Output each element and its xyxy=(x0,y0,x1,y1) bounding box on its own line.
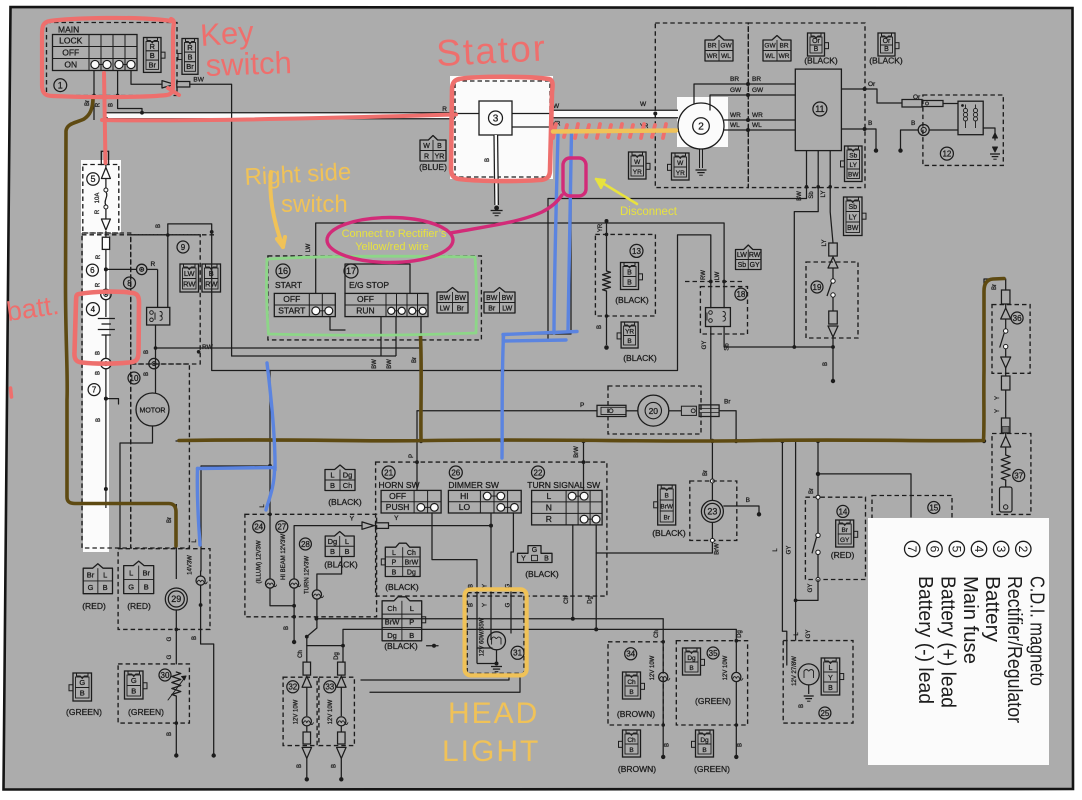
svg-text:N: N xyxy=(546,502,552,512)
svg-text:(RED): (RED) xyxy=(831,550,855,560)
svg-text:B: B xyxy=(746,497,750,504)
connector Br GY 14 xyxy=(836,520,854,547)
svg-text:4: 4 xyxy=(91,305,96,314)
magneto circle 2 xyxy=(678,103,724,149)
lamp 34 bulb xyxy=(659,672,668,681)
wire L into box xyxy=(269,514,271,579)
magneto BR GW wires xyxy=(694,84,795,104)
wire pair to headlight area xyxy=(361,673,509,680)
svg-text:Battery (-) lead: Battery (-) lead xyxy=(914,576,936,704)
svg-text:LY: LY xyxy=(822,240,828,247)
svg-text:WL: WL xyxy=(730,122,740,129)
svg-text:G: G xyxy=(167,654,173,659)
svg-text:15: 15 xyxy=(929,503,938,512)
svg-text:BR: BR xyxy=(779,43,788,50)
svg-text:L: L xyxy=(392,550,396,557)
svg-text:B: B xyxy=(665,743,671,747)
svg-text:DIMMER SW: DIMMER SW xyxy=(448,480,499,490)
legend item 5 Main fuse xyxy=(949,541,964,556)
svg-text:YR: YR xyxy=(625,328,634,335)
wire R from key switch down to fuse xyxy=(104,71,106,152)
svg-text:L: L xyxy=(546,491,551,501)
svg-text:Y: Y xyxy=(828,675,833,682)
svg-text:GY: GY xyxy=(787,546,793,555)
connector BW BW LW Br xyxy=(437,288,468,314)
CDI Or wire right xyxy=(841,88,877,90)
svg-text:Y: Y xyxy=(483,603,489,607)
dimmer knob dashed box 30 xyxy=(118,664,189,723)
circled 31 xyxy=(511,646,524,659)
svg-text:14V3W: 14V3W xyxy=(188,555,194,575)
svg-text:GY: GY xyxy=(750,262,760,269)
legend item 2 C.D.I. magneto xyxy=(1016,541,1031,556)
circled 17 xyxy=(344,264,358,278)
connector GW BR WL WR xyxy=(763,36,791,62)
svg-text:22: 22 xyxy=(534,468,543,477)
svg-text:R: R xyxy=(96,282,102,287)
svg-text:B: B xyxy=(665,493,669,500)
brown hand-drawn earth bus trace xyxy=(179,279,1004,442)
lamp chain 36 fuse xyxy=(1001,290,1010,304)
connector L Ch P BrW B Dg xyxy=(385,543,420,576)
circled 30 xyxy=(159,669,171,681)
red tail mark xyxy=(168,88,179,95)
svg-text:HEAD: HEAD xyxy=(448,697,539,730)
svg-text:(BLACK): (BLACK) xyxy=(385,582,419,592)
svg-text:Sb: Sb xyxy=(848,204,857,211)
lamp 33 chain xyxy=(338,662,346,675)
svg-text:HORN SW: HORN SW xyxy=(379,480,420,490)
tail lamp wires in xyxy=(782,631,786,665)
flasher lamp 32 dashed box xyxy=(283,677,317,745)
svg-text:(BROWN): (BROWN) xyxy=(617,709,655,719)
svg-text:(BROWN): (BROWN) xyxy=(618,764,656,774)
svg-text:(GREEN): (GREEN) xyxy=(695,696,731,706)
svg-text:12V 10W: 12V 10W xyxy=(294,699,300,724)
circled 25 xyxy=(819,707,831,719)
battery dashed box xyxy=(82,233,131,548)
circled 6 xyxy=(86,264,98,276)
svg-text:GY: GY xyxy=(808,584,814,593)
circled 5 xyxy=(87,173,99,185)
svg-text:(RED): (RED) xyxy=(127,601,151,611)
legend item 7 Battery (-) lead xyxy=(905,541,920,556)
svg-text:BW: BW xyxy=(439,295,451,302)
svg-text:Dg: Dg xyxy=(687,655,696,662)
svg-text:R: R xyxy=(96,102,102,107)
wire BW from CDI down left xyxy=(503,187,807,341)
horn switch table xyxy=(381,490,441,513)
wire W white highlighted to stator xyxy=(104,112,455,114)
svg-text:Battery: Battery xyxy=(981,576,1003,642)
svg-text:10A: 10A xyxy=(95,193,101,204)
lamp 20 fuse left xyxy=(597,405,626,416)
circled 37 xyxy=(1013,470,1025,482)
svg-text:switch: switch xyxy=(205,45,292,83)
svg-text:R: R xyxy=(95,209,101,214)
grommet on battery wire xyxy=(101,289,111,299)
connector R B Br at key switch xyxy=(144,38,162,73)
horn B wire down xyxy=(432,513,492,648)
circled 9 xyxy=(177,241,189,253)
svg-text:MAIN: MAIN xyxy=(58,25,79,35)
svg-text:OFF: OFF xyxy=(283,294,300,304)
svg-text:B: B xyxy=(103,583,108,592)
svg-text:3: 3 xyxy=(994,546,1008,553)
wire Br top right xyxy=(984,279,1006,441)
svg-text:37: 37 xyxy=(1014,471,1023,480)
key switch 1 dashed box xyxy=(47,23,178,96)
wire Dg to 33 xyxy=(342,629,344,662)
connector B RW xyxy=(202,264,221,292)
svg-text:LY: LY xyxy=(849,215,857,222)
svg-text:B: B xyxy=(109,103,115,107)
wire YR junction dot xyxy=(569,129,573,133)
circled 7 xyxy=(88,384,100,396)
svg-text:10: 10 xyxy=(130,374,139,383)
svg-text:GW: GW xyxy=(764,43,776,50)
red hand-drawn R wire trace vertical xyxy=(104,73,106,163)
connector Br L G B red xyxy=(83,564,112,594)
svg-text:Dg: Dg xyxy=(328,537,338,546)
svg-text:R: R xyxy=(424,153,429,160)
connector B BrW Br xyxy=(658,485,676,525)
grommet 8 on R wire xyxy=(137,264,147,274)
14V3W bulb xyxy=(196,576,205,585)
svg-text:P: P xyxy=(580,402,584,409)
start to e/g link wire xyxy=(330,317,345,330)
svg-text:Br: Br xyxy=(87,570,95,579)
svg-text:BrW: BrW xyxy=(660,504,674,511)
svg-text:BrW: BrW xyxy=(405,560,419,567)
wire Br from key switch down xyxy=(93,71,95,120)
headlight bulb xyxy=(488,632,506,650)
svg-text:Dg: Dg xyxy=(387,631,397,640)
dimmer Y wire down xyxy=(490,513,492,640)
brake switch 14 wire xyxy=(817,441,819,497)
svg-text:Br: Br xyxy=(703,470,709,476)
svg-text:30: 30 xyxy=(161,671,170,680)
lamp 35 bulb xyxy=(732,672,741,681)
svg-text:TURN 12V3W: TURN 12V3W xyxy=(305,556,311,594)
circled 19 xyxy=(811,281,823,293)
stator W wire right xyxy=(512,113,550,115)
meter lamp dashed box 24 27 28 xyxy=(245,514,377,617)
circled 21 xyxy=(382,466,395,479)
ignition fuse xyxy=(902,100,922,108)
dashed box 12 xyxy=(923,95,1003,165)
svg-text:6: 6 xyxy=(927,546,941,553)
svg-text:HI: HI xyxy=(460,491,469,501)
svg-text:B: B xyxy=(150,51,155,60)
svg-text:Br: Br xyxy=(149,60,157,69)
wire YR down from disconnect xyxy=(503,131,571,334)
svg-text:L: L xyxy=(330,470,334,479)
svg-text:P: P xyxy=(392,560,397,567)
relay top wire xyxy=(157,269,159,307)
svg-text:B: B xyxy=(689,665,693,672)
svg-text:14: 14 xyxy=(838,507,847,516)
svg-text:L: L xyxy=(129,568,133,577)
svg-text:B: B xyxy=(884,46,889,53)
svg-text:B: B xyxy=(828,685,833,692)
svg-text:Br: Br xyxy=(809,488,815,494)
svg-text:LOCK: LOCK xyxy=(59,35,82,45)
horn P wire up xyxy=(416,411,418,491)
svg-text:G: G xyxy=(505,602,511,607)
svg-text:YR: YR xyxy=(598,223,604,232)
svg-text:29: 29 xyxy=(171,594,181,604)
svg-text:(BLACK): (BLACK) xyxy=(384,641,418,651)
svg-text:BW: BW xyxy=(193,77,204,84)
wire Br down to meter xyxy=(175,504,177,549)
svg-text:12V 10W: 12V 10W xyxy=(650,655,656,680)
svg-text:33: 33 xyxy=(325,683,334,692)
headlight ground xyxy=(496,650,498,664)
svg-text:BrW: BrW xyxy=(385,618,401,627)
svg-text:LW: LW xyxy=(715,271,721,280)
svg-text:Br: Br xyxy=(457,305,465,312)
tail lamp ground xyxy=(808,685,810,694)
svg-text:B: B xyxy=(144,350,150,354)
svg-text:Ch: Ch xyxy=(627,679,636,686)
chain 36 fuse 3 xyxy=(1001,418,1010,433)
svg-text:(BLACK): (BLACK) xyxy=(615,295,649,305)
svg-text:Connect to Rectifier’s: Connect to Rectifier’s xyxy=(342,228,447,240)
svg-text:B: B xyxy=(209,269,214,278)
svg-text:Y: Y xyxy=(995,396,1001,400)
fuse terminal bottom triangle xyxy=(101,219,110,230)
battery negative wire down xyxy=(105,369,107,508)
white band behind W and YR wires stator to magneto xyxy=(550,110,678,118)
handlebar switch dashed box xyxy=(376,462,607,596)
svg-text:switch: switch xyxy=(281,191,348,218)
pink connect oval xyxy=(327,218,453,263)
wire from e/g stop to lamp 20 area xyxy=(417,410,597,412)
svg-text:Dg: Dg xyxy=(737,630,743,638)
dimmer G wire down xyxy=(511,513,513,633)
wire to dimmer switch xyxy=(502,334,504,458)
connector Sb LY BW xyxy=(845,146,863,182)
magneto 2 dashed box xyxy=(655,23,748,188)
flasher switch xyxy=(831,279,835,283)
svg-text:E/G STOP: E/G STOP xyxy=(349,280,389,290)
grommet on battery negative xyxy=(101,358,111,368)
svg-text:Br: Br xyxy=(841,527,848,534)
svg-text:L: L xyxy=(103,570,107,579)
svg-text:2: 2 xyxy=(698,122,704,133)
red tick marks on YR wire xyxy=(553,124,556,138)
chain 36 fuse 2 xyxy=(1001,376,1010,390)
magneto ground xyxy=(699,149,701,168)
legend box xyxy=(868,518,1049,765)
CDI dashed box xyxy=(748,23,865,188)
svg-text:4: 4 xyxy=(972,546,986,553)
circled 34 xyxy=(625,648,637,660)
yellow arrow to disconnect xyxy=(596,179,637,204)
svg-text:ON: ON xyxy=(64,59,77,69)
red mark at left edge xyxy=(11,388,12,397)
lamp 20 circle xyxy=(638,395,669,426)
connector BW BW Br LW xyxy=(484,288,515,314)
svg-text:LY: LY xyxy=(821,191,827,198)
svg-text:G: G xyxy=(532,547,537,554)
circled 28 xyxy=(299,538,311,550)
right side switch dashed box xyxy=(268,256,482,340)
lamp 20 fuse right xyxy=(669,410,682,412)
svg-text:Sb: Sb xyxy=(725,343,731,351)
svg-text:W: W xyxy=(640,101,647,108)
wire Ch to 34 xyxy=(316,618,572,620)
svg-text:36: 36 xyxy=(1013,314,1022,323)
red hand-drawn key switch outline xyxy=(42,18,174,97)
svg-text:PUSH: PUSH xyxy=(386,502,410,512)
starter relay 9 dashed box xyxy=(131,235,201,364)
svg-text:Br: Br xyxy=(663,515,670,522)
chain 37 triangle xyxy=(1001,436,1011,447)
svg-text:7: 7 xyxy=(92,385,97,394)
svg-text:Y: Y xyxy=(521,556,526,563)
svg-text:RUN: RUN xyxy=(356,306,374,316)
svg-text:(GREEN): (GREEN) xyxy=(694,764,730,774)
wire Sb down from CDI xyxy=(794,187,818,347)
circled 16 xyxy=(276,264,290,278)
connector L Dg B Ch xyxy=(325,465,355,491)
brake switch contacts xyxy=(817,499,819,533)
relay 18 dashed box xyxy=(700,287,747,334)
relay 18 wires top xyxy=(709,280,713,284)
rear flasher 35 dashed box xyxy=(676,641,747,725)
blue hand-drawn wire trace to meter lamp xyxy=(267,363,275,470)
svg-text:RW: RW xyxy=(749,252,761,259)
svg-text:25: 25 xyxy=(820,709,829,718)
svg-text:B: B xyxy=(485,158,491,162)
chain 37 plug xyxy=(1005,480,1007,487)
svg-text:6: 6 xyxy=(90,266,95,275)
svg-text:Ch: Ch xyxy=(298,650,304,658)
svg-text:28: 28 xyxy=(301,540,310,549)
svg-text:B: B xyxy=(131,687,136,696)
svg-text:W: W xyxy=(423,143,430,150)
yellow arrow down to switch box xyxy=(270,172,283,247)
svg-text:B: B xyxy=(597,325,603,329)
TURN bulb xyxy=(312,590,321,599)
circled 12 xyxy=(940,147,953,160)
svg-text:B: B xyxy=(284,626,290,630)
svg-text:GW: GW xyxy=(730,87,742,94)
circled 10 xyxy=(128,372,140,384)
svg-text:W: W xyxy=(677,160,684,167)
svg-text:(GREEN): (GREEN) xyxy=(128,707,164,717)
svg-text:B: B xyxy=(627,338,631,345)
relay 18 box xyxy=(706,308,731,327)
connector Dg B 35 xyxy=(683,648,701,675)
circled 33 xyxy=(324,681,336,693)
key switch circled 1 xyxy=(54,79,67,92)
svg-text:B: B xyxy=(702,747,706,754)
svg-text:BR: BR xyxy=(730,76,739,83)
wire R to relay with junction xyxy=(105,249,107,289)
wire RW right xyxy=(156,347,422,349)
stator ground wire xyxy=(494,135,498,205)
svg-text:LW: LW xyxy=(502,305,512,312)
svg-text:B: B xyxy=(868,120,872,127)
white band behind W wire key switch to stator xyxy=(104,113,455,119)
svg-text:BR: BR xyxy=(707,43,716,50)
svg-text:G: G xyxy=(167,636,173,641)
svg-text:23: 23 xyxy=(707,507,717,517)
svg-text:B: B xyxy=(332,764,338,768)
circled 24 xyxy=(253,521,265,533)
circled 4 battery xyxy=(86,303,99,316)
svg-text:B: B xyxy=(627,269,632,276)
wire 35 down xyxy=(735,682,737,757)
svg-text:Sb: Sb xyxy=(809,191,815,199)
svg-text:Br: Br xyxy=(167,517,173,523)
svg-text:LW: LW xyxy=(440,305,450,312)
svg-text:LW: LW xyxy=(306,243,312,252)
svg-text:12V 60W/55W: 12V 60W/55W xyxy=(480,617,486,656)
svg-text:B: B xyxy=(629,747,633,754)
wires L GY down to tail lamp xyxy=(781,441,783,631)
svg-text:START: START xyxy=(278,306,305,316)
svg-text:Y: Y xyxy=(995,409,1001,413)
flasher triangle xyxy=(828,257,838,268)
svg-text:B: B xyxy=(330,481,335,490)
e/g stop housing xyxy=(345,264,410,293)
svg-text:Battery (+) lead: Battery (+) lead xyxy=(937,576,959,708)
svg-text:WL: WL xyxy=(721,53,731,60)
key switch table xyxy=(53,35,138,71)
svg-text:B: B xyxy=(799,704,805,708)
legend item 4 Battery xyxy=(971,541,986,556)
svg-text:5: 5 xyxy=(950,546,964,553)
svg-text:B: B xyxy=(144,372,150,376)
svg-text:Sb: Sb xyxy=(849,152,857,159)
chain 36 switch xyxy=(1004,329,1008,333)
svg-text:Dg: Dg xyxy=(588,596,594,604)
svg-text:Br: Br xyxy=(724,399,731,406)
svg-text:L: L xyxy=(345,537,349,546)
svg-text:B: B xyxy=(629,689,633,696)
circled 11 xyxy=(813,102,827,116)
svg-text:B: B xyxy=(156,224,162,228)
svg-text:WR: WR xyxy=(730,112,741,119)
connector Dg B 35 lower xyxy=(696,730,714,757)
svg-text:(BLUE): (BLUE) xyxy=(419,162,447,172)
svg-text:LW: LW xyxy=(184,269,196,278)
svg-text:Or: Or xyxy=(812,38,820,45)
wire from key switch ON to BW connector xyxy=(131,71,162,85)
horn 23 wire down xyxy=(711,441,713,501)
svg-text:BrW: BrW xyxy=(574,446,580,458)
svg-text:27: 27 xyxy=(277,523,286,532)
start switch wire LW to relay 18 xyxy=(316,223,724,308)
svg-text:5: 5 xyxy=(90,174,95,184)
dashed box 37 xyxy=(992,434,1031,515)
svg-text:B: B xyxy=(80,689,85,698)
svg-text:WR: WR xyxy=(752,112,763,119)
svg-text:YR: YR xyxy=(633,169,642,176)
svg-text:(ILLUM) 12V3W: (ILLUM) 12V3W xyxy=(257,540,263,583)
circled 22 xyxy=(532,466,545,479)
svg-text:Ch: Ch xyxy=(564,596,570,604)
circled 3 xyxy=(489,111,503,125)
fuse element xyxy=(105,179,107,189)
svg-text:B: B xyxy=(96,351,102,355)
svg-text:(BLACK): (BLACK) xyxy=(328,497,362,507)
connector R B Br second xyxy=(182,39,198,75)
